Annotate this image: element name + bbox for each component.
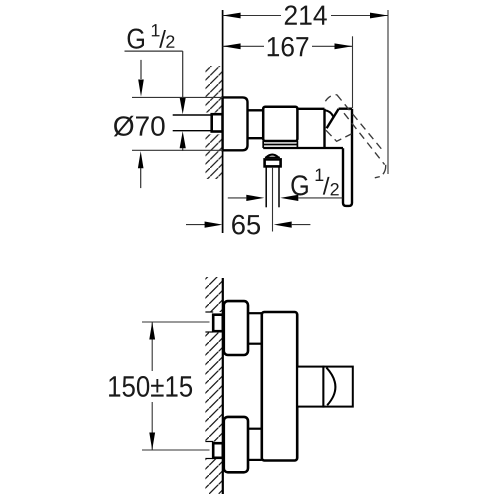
wall line — [222, 10, 224, 233]
hose centerline — [272, 167, 274, 232]
lower connection block — [224, 417, 248, 472]
handle arm — [297, 367, 323, 407]
supply pipe stub behind wall — [173, 114, 212, 116]
shower hose outlet arc — [266, 155, 278, 158]
upper connection block — [224, 301, 248, 355]
upper supply stub — [205, 311, 213, 313]
label G 1/2 upper — [128, 24, 175, 49]
cone edge — [327, 109, 339, 128]
neck between flange and body — [248, 109, 264, 111]
body front — [262, 312, 297, 461]
lever handle (closed position) — [343, 109, 352, 206]
dashed lever upper edge — [337, 95, 383, 150]
cartridge joint face — [323, 109, 325, 148]
dimension Ø70 — [132, 96, 223, 98]
dashed hub cap — [325, 95, 336, 102]
neck lines lower — [248, 428, 262, 430]
dome arc — [325, 110, 334, 116]
dashed hub collar — [326, 130, 352, 141]
dashed lever tip cap — [375, 165, 386, 178]
upper nut — [213, 315, 223, 332]
lever handle open position (dashed) — [325, 95, 385, 178]
supply nut — [212, 114, 223, 131]
hub flat top — [339, 107, 352, 109]
dimension 214 — [223, 10, 388, 174]
wall flange (escutcheon) — [223, 97, 248, 150]
lower supply stub — [205, 441, 213, 443]
body bottom band — [263, 144, 297, 146]
dashed lever lower edge — [344, 113, 385, 164]
mixer body — [263, 107, 297, 141]
wall line — [222, 278, 224, 494]
wall hatching lower — [206, 134, 223, 179]
dimension 65 — [186, 224, 205, 226]
label G 1/2 lower — [291, 169, 338, 196]
dimension 150±15 — [142, 321, 210, 323]
grip arc — [326, 368, 335, 406]
lower nut — [213, 443, 223, 458]
handle grip — [323, 367, 352, 407]
wall hatching — [205, 277, 222, 312]
dimension 167 — [223, 36, 353, 108]
neck to cartridge — [297, 108, 324, 110]
hose nut — [265, 159, 281, 166]
hose pipe — [265, 166, 267, 207]
neck lines upper — [248, 312, 262, 314]
wall hatching upper — [206, 66, 223, 113]
